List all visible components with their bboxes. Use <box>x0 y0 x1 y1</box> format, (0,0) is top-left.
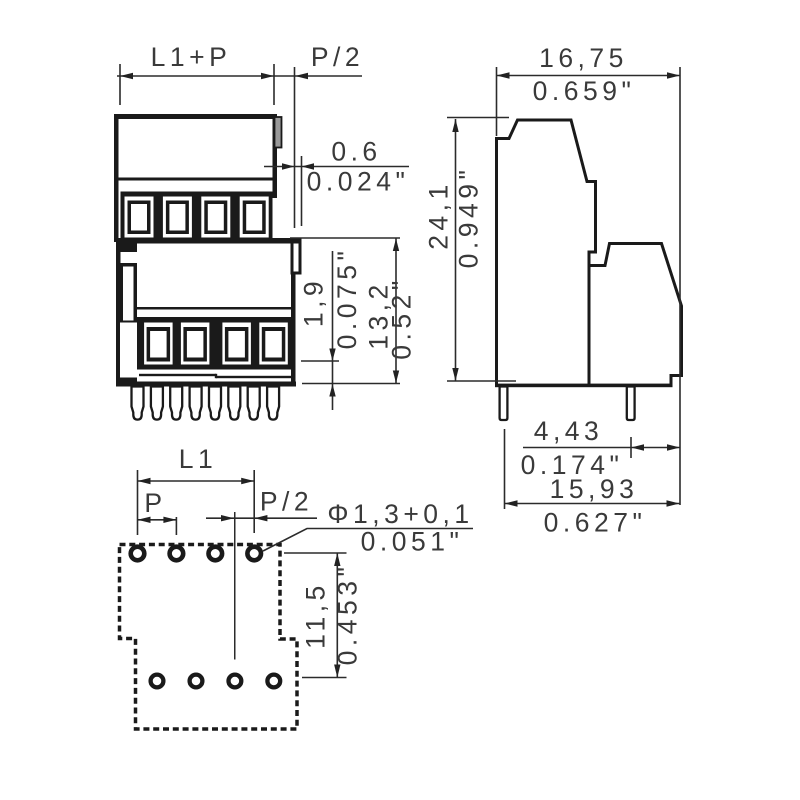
top row holes <box>131 547 261 561</box>
upper housing right bar <box>273 114 278 198</box>
clamp 2.4 <box>259 323 288 365</box>
svg-text:0.659": 0.659" <box>533 76 636 106</box>
upper housing top bar <box>114 114 277 119</box>
clamp 2.3 <box>222 323 251 365</box>
lower housing face line <box>137 307 291 310</box>
dim P/2 <box>206 517 317 519</box>
arrows side dims <box>452 72 680 506</box>
upper housing horizontal split line <box>119 178 273 181</box>
dim 0.6 <box>264 166 409 168</box>
bottom view dim texts <box>144 444 473 665</box>
leader phi <box>263 529 473 552</box>
side view dim texts <box>424 43 647 538</box>
svg-text:Φ1,3+0,1: Φ1,3+0,1 <box>327 499 473 529</box>
clamp row 1 band <box>121 192 273 243</box>
clamp 1.3 <box>201 197 230 238</box>
svg-text:L1+P: L1+P <box>151 42 232 72</box>
svg-text:P/2: P/2 <box>311 42 364 72</box>
svg-text:L1: L1 <box>179 444 217 474</box>
side view bottom bar <box>495 384 673 388</box>
dim 4.43 <box>523 447 680 449</box>
svg-text:0.52": 0.52" <box>387 276 417 359</box>
clamp 2.1 <box>144 323 173 365</box>
clamp row 2 band <box>137 317 292 370</box>
dim 16.75 <box>497 75 681 77</box>
svg-text:0.949": 0.949" <box>454 166 484 269</box>
svg-text:24,1: 24,1 <box>424 180 454 250</box>
upper housing left bar <box>114 114 119 242</box>
svg-text:4,43: 4,43 <box>534 416 604 446</box>
front view dim texts <box>151 42 417 360</box>
dim 15.93 <box>505 503 680 505</box>
clamp 2.2 <box>181 323 210 365</box>
bottom view dimensions <box>138 470 474 678</box>
side view internal divider <box>588 266 591 385</box>
bottom row holes <box>151 675 281 688</box>
dim 24.1 <box>455 119 457 381</box>
dim 13.2 <box>395 239 397 384</box>
clamp 1.2 <box>163 197 192 238</box>
dim L1 <box>138 480 255 482</box>
dashed outline <box>120 545 298 730</box>
clamp 1.4 <box>240 197 269 238</box>
svg-text:P: P <box>144 488 166 518</box>
svg-text:0.051": 0.051" <box>361 527 464 557</box>
side view outline <box>497 120 682 386</box>
dim line L1+P / P2 <box>117 75 362 77</box>
pins front <box>132 387 280 420</box>
dim P <box>138 519 177 521</box>
skirt lines <box>116 374 296 387</box>
arrows bottom dims <box>138 478 341 678</box>
svg-text:0.6: 0.6 <box>331 137 381 167</box>
bottom bar <box>116 382 296 387</box>
svg-text:0.024": 0.024" <box>307 167 410 197</box>
dim 11.5 <box>336 553 338 678</box>
lower housing right flange <box>291 238 302 387</box>
lower housing top bar <box>116 238 302 244</box>
svg-text:1,9: 1,9 <box>299 277 329 327</box>
svg-text:0.453": 0.453" <box>333 563 363 666</box>
arrows front dims <box>120 73 399 397</box>
svg-text:0.075": 0.075" <box>332 247 362 350</box>
svg-text:11,5: 11,5 <box>301 581 331 649</box>
clamp 1.1 <box>125 197 154 238</box>
dim 1.9 <box>332 251 334 410</box>
lower housing left column <box>116 238 137 387</box>
svg-text:15,93: 15,93 <box>550 474 639 504</box>
svg-text:16,75: 16,75 <box>539 43 628 73</box>
svg-text:P/2: P/2 <box>260 487 313 517</box>
upper housing latch tab (gray) <box>275 117 282 148</box>
svg-text:0.627": 0.627" <box>544 508 647 538</box>
side view pins <box>500 387 635 421</box>
